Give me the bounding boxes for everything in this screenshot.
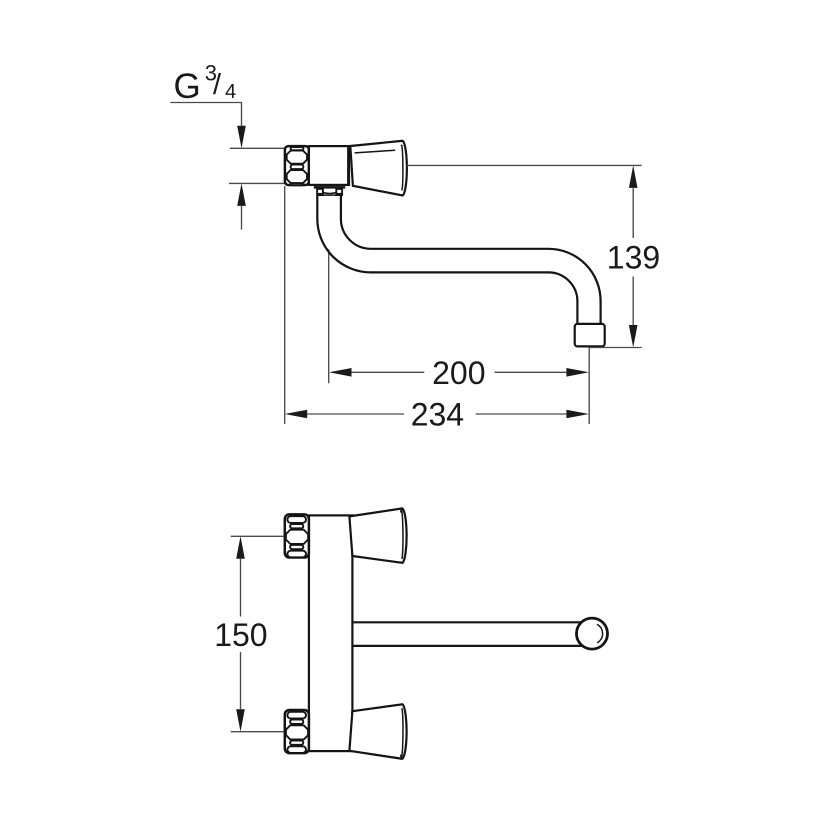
svg-text:/: / — [213, 69, 222, 101]
label G 3/4 — [174, 61, 237, 106]
handle bottom (plan) — [349, 704, 406, 759]
spout end cap top view — [577, 618, 608, 649]
arrow up G3/4 — [237, 183, 246, 206]
arrow down G3/4 — [237, 126, 246, 149]
extension line 150 top — [231, 535, 284, 537]
spout tube top view — [353, 621, 584, 623]
svg-text:G: G — [174, 67, 201, 106]
extension line nut bottom — [229, 182, 285, 184]
svg-text:4: 4 — [225, 81, 236, 103]
svg-text:200: 200 — [432, 355, 485, 391]
extension line 139 bottom — [589, 347, 641, 349]
spout union nut under body — [317, 189, 342, 195]
nozzle side view — [575, 324, 605, 347]
extension line 150 bottom — [231, 731, 284, 733]
dimension 139 — [607, 165, 660, 347]
valve body side view — [309, 146, 349, 185]
extension line 139 top — [407, 164, 642, 166]
hex nut upper (plan) — [285, 514, 309, 557]
dimension 234 — [285, 397, 589, 433]
extension line nut top — [230, 147, 285, 149]
leader line G3/4 — [170, 103, 241, 126]
wall extension line (234 left) — [284, 186, 286, 424]
svg-text:150: 150 — [214, 617, 267, 653]
valve body top view — [309, 515, 353, 751]
hex nut side view — [285, 146, 309, 185]
spout tube side view — [317, 195, 577, 324]
svg-text:234: 234 — [411, 397, 464, 433]
flange under body — [314, 186, 346, 189]
nozzle extension line (right) — [588, 347, 590, 424]
spout center extension line (200 left) — [328, 249, 330, 383]
hex nut lower (plan) — [285, 710, 309, 753]
dimension 150 — [214, 536, 267, 731]
dimension 200 — [329, 355, 589, 391]
handle cone side view — [350, 141, 407, 196]
leader tail G3/4 — [241, 206, 243, 230]
handle top (plan) — [349, 508, 406, 563]
svg-text:139: 139 — [607, 240, 660, 276]
